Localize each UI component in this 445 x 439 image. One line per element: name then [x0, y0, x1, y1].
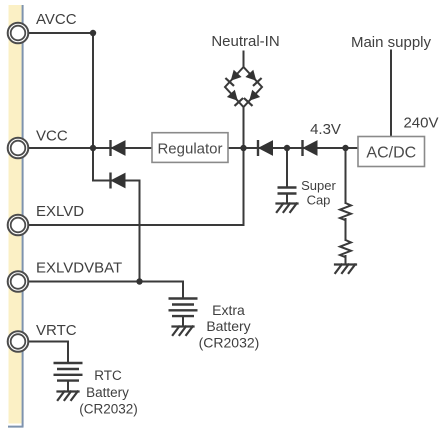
svg-text:Battery: Battery [86, 385, 129, 400]
connector pin VRTC [8, 331, 29, 352]
wire resistor middle link [345, 219, 347, 240]
svg-text:4.3V: 4.3V [310, 121, 341, 138]
resistor R1 upper zigzag [340, 203, 351, 220]
svg-text:Main supply: Main supply [351, 34, 432, 51]
diode D4 [303, 140, 318, 156]
bridge diode top-right [245, 70, 261, 86]
RTC battery BT2 (CR2032) [54, 363, 83, 381]
junction AVCC [90, 30, 96, 36]
connector pin EXLVD [8, 215, 29, 236]
wire RTC battery to ground [67, 382, 69, 392]
wire EXLVDVBAT to battery corner [28, 282, 183, 299]
bridge diode bottom-left [227, 90, 243, 106]
svg-text:VCC: VCC [36, 128, 68, 145]
diode bridge outline [225, 67, 262, 107]
wire resistor bottom lead [345, 256, 347, 265]
diode D3 [258, 140, 273, 156]
svg-text:240V: 240V [403, 115, 438, 132]
junction resistor tap [342, 145, 348, 151]
bridge diode bottom-right [244, 90, 260, 106]
extra battery BT1 (CR2032) [169, 299, 198, 317]
svg-text:VRTC: VRTC [36, 322, 77, 339]
junction bridge/main rail [240, 145, 246, 151]
wire Main supply lead [390, 51, 392, 137]
super cap C1 plates [278, 188, 297, 194]
resistor R1 lower zigzag [340, 240, 351, 257]
svg-text:(CR2032): (CR2032) [199, 335, 260, 351]
wire vertical AVCC junction to VCC junction [92, 33, 94, 148]
ground (resistor) [335, 265, 356, 274]
svg-text:Neutral-IN: Neutral-IN [211, 33, 279, 50]
junction VCC [90, 145, 96, 151]
wire regulator output to AC/DC [228, 147, 358, 149]
svg-text:(CR2032): (CR2032) [79, 402, 138, 417]
svg-text:AVCC: AVCC [36, 11, 77, 28]
ground (RTC battery) [58, 392, 79, 401]
svg-text:AC/DC: AC/DC [366, 145, 416, 162]
connector pin AVCC [8, 23, 29, 44]
AC/DC converter box [358, 137, 425, 167]
wire super cap lead [286, 148, 288, 188]
connector pin EXLVDVBAT [8, 271, 29, 292]
wire AVCC to junction [28, 32, 93, 34]
panel border [8, 5, 24, 427]
wire bridge bottom to EXLVD corner [243, 107, 245, 225]
svg-text:Regulator: Regulator [157, 141, 222, 158]
regulator U1 box [152, 133, 228, 163]
svg-text:Battery: Battery [206, 318, 250, 334]
ground (super cap) [277, 204, 298, 213]
svg-text:EXLVD: EXLVD [36, 203, 84, 220]
bridge diode top-left [225, 70, 241, 86]
svg-text:RTC: RTC [94, 368, 122, 383]
wire vertical VCC junction to lower diode branch [92, 148, 94, 181]
wire extra battery to ground [182, 316, 184, 326]
connector pin VCC [8, 138, 29, 159]
wire VRTC to RTC battery corner [28, 342, 68, 364]
wire EXLVD to bridge vertical [28, 224, 244, 226]
junction EXLVDVBAT [136, 278, 142, 284]
wire VCC to regulator [28, 147, 152, 149]
diode D1 (VCC feed) [111, 140, 126, 156]
svg-text:EXLVDVBAT: EXLVDVBAT [36, 260, 122, 277]
ground (extra battery) [173, 327, 194, 336]
wire Neutral-IN lead to bridge top [243, 52, 245, 68]
junction super cap tap [284, 145, 290, 151]
connector strip (panel highlight) [9, 5, 22, 424]
svg-text:Super: Super [301, 178, 336, 193]
wire resistor top lead [345, 148, 347, 203]
svg-text:Extra: Extra [212, 302, 245, 318]
wire vertical down to EXLVDVBAT junction [139, 181, 141, 282]
wire lower diode branch to down corner [93, 180, 140, 182]
svg-text:Cap: Cap [307, 193, 331, 208]
diode D2 (battery feed) [111, 173, 126, 189]
wire super cap to ground [286, 194, 288, 204]
